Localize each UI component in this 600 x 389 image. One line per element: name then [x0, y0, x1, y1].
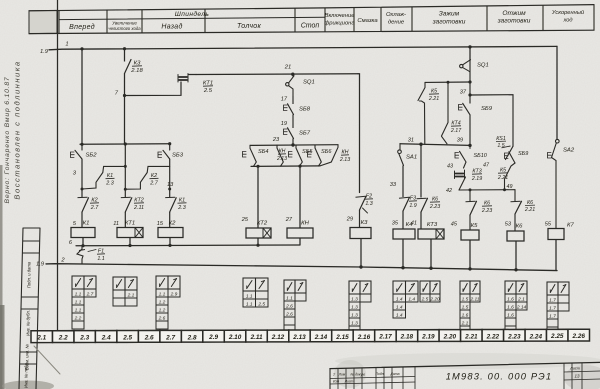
svg-text:дение: дение	[388, 20, 405, 26]
svg-text:13: 13	[167, 182, 174, 188]
pushbutton SB9	[459, 105, 463, 111]
svg-text:2.21: 2.21	[428, 96, 439, 102]
svg-text:заготовки: заготовки	[432, 19, 466, 26]
pushbutton SB3	[158, 152, 162, 158]
svg-text:Смазка: Смазка	[357, 18, 378, 24]
svg-text:2.21: 2.21	[524, 207, 535, 213]
fuse contact F2 1.3	[360, 196, 367, 210]
svg-text:2.14: 2.14	[314, 334, 328, 341]
svg-text:2.7: 2.7	[86, 291, 94, 297]
wire row y145	[250, 144, 338, 147]
contact K5 2.21	[418, 82, 425, 100]
node 37	[468, 93, 471, 96]
contact KN 2.13	[277, 145, 283, 166]
svg-text:2.8: 2.8	[187, 334, 197, 341]
svg-text:23: 23	[272, 137, 280, 143]
usage table KT2	[243, 278, 268, 307]
svg-text:SБ7: SБ7	[299, 131, 311, 137]
svg-text:2.3: 2.3	[105, 180, 114, 186]
wire row y144 left	[80, 143, 170, 146]
drop to KT2 coil	[256, 165, 259, 168]
svg-text:45: 45	[451, 222, 458, 228]
wire top bus line 1	[49, 46, 557, 49]
svg-text:33: 33	[390, 182, 397, 188]
drop to KN coil	[298, 165, 301, 168]
svg-text:Инв. № подл.: Инв. № подл.	[24, 362, 29, 388]
svg-text:53: 53	[505, 222, 512, 228]
center ladder col KT1	[124, 144, 126, 198]
K3 column	[358, 74, 360, 193]
svg-text:SБ2: SБ2	[86, 153, 98, 159]
usage table KT3	[420, 281, 440, 302]
svg-text:2.11: 2.11	[470, 296, 480, 302]
svg-text:Верно: Гончаренко Вмир 6.10.: Верно: Гончаренко Вмир 6.10.87	[4, 76, 11, 203]
fuse contact F3 1.9	[403, 197, 410, 211]
svg-text:фрикциона: фрикциона	[324, 21, 355, 27]
svg-text:2.12: 2.12	[271, 334, 285, 341]
svg-text:Вперед: Вперед	[69, 23, 95, 31]
svg-text:1.9: 1.9	[409, 203, 416, 209]
limit switch SQ1 right	[469, 47, 471, 61]
svg-text:2.24: 2.24	[529, 333, 543, 340]
wire row y166	[251, 165, 320, 168]
svg-text:1.9: 1.9	[36, 262, 45, 268]
svg-text:25: 25	[241, 217, 249, 223]
svg-text:Инв. № дубл.: Инв. № дубл.	[26, 310, 31, 336]
svg-text:Шпиндель: Шпиндель	[175, 10, 210, 18]
svg-text:1.1: 1.1	[97, 256, 104, 262]
wire 37 right drop	[470, 95, 513, 147]
svg-text:42: 42	[446, 188, 452, 194]
svg-text:Увеличение: Увеличение	[112, 21, 137, 26]
svg-text:31: 31	[408, 138, 414, 144]
usage table K6	[505, 281, 527, 334]
svg-text:2.4: 2.4	[101, 335, 111, 342]
header table	[29, 5, 594, 34]
svg-text:ход: ход	[562, 18, 572, 24]
contact KT3 2.19 flag	[456, 174, 464, 177]
crease	[34, 346, 60, 374]
svg-text:1М983. 00. 000 РЭ1: 1М983. 00. 000 РЭ1	[446, 372, 553, 382]
pushbutton SB7	[284, 129, 288, 135]
svg-text:Восстановлен с подлинника: Восстановлен с подлинника	[13, 60, 22, 199]
svg-text:2.7: 2.7	[165, 334, 175, 341]
svg-text:2.3: 2.3	[79, 335, 89, 342]
svg-text:2.7: 2.7	[149, 180, 158, 186]
svg-text:47: 47	[483, 163, 490, 169]
svg-text:Стоп: Стоп	[301, 23, 320, 30]
svg-text:27: 27	[285, 217, 293, 223]
contact K5 2.21 b	[505, 163, 516, 188]
svg-text:1: 1	[65, 42, 68, 48]
pushbutton SB5	[289, 152, 293, 158]
KT3 column	[420, 144, 422, 197]
svg-text:2.6: 2.6	[144, 334, 154, 341]
svg-text:1.5: 1.5	[497, 143, 504, 149]
svg-text:1.4: 1.4	[408, 296, 415, 302]
svg-text:2.16: 2.16	[357, 334, 371, 341]
wire vertical col1	[81, 49, 83, 144]
svg-text:Лим: Лим	[338, 373, 346, 377]
svg-text:КТ1: КТ1	[125, 221, 135, 227]
svg-text:2.5: 2.5	[257, 301, 265, 307]
self hold contact K2 2.7	[125, 166, 169, 189]
svg-text:2.11: 2.11	[133, 205, 144, 211]
contact KT4 2.17	[442, 82, 449, 136]
svg-text:2.9: 2.9	[208, 334, 218, 341]
coil K4	[393, 229, 415, 239]
svg-text:заготовки: заготовки	[497, 18, 531, 25]
svg-text:1.3: 1.3	[365, 201, 372, 207]
svg-text:К2: К2	[169, 221, 176, 227]
svg-text:Подп.: Подп.	[375, 372, 384, 376]
svg-text:11: 11	[113, 221, 119, 227]
svg-text:17: 17	[281, 97, 288, 103]
svg-text:2.26: 2.26	[572, 333, 586, 340]
title block	[330, 362, 600, 389]
svg-text:2.18: 2.18	[400, 334, 414, 341]
drawing frame left border	[57, 0, 59, 331]
svg-text:SБ9: SБ9	[481, 106, 493, 112]
limit switch SQ1	[292, 74, 294, 76]
svg-text:Зажим: Зажим	[439, 11, 460, 18]
svg-text:2.13: 2.13	[276, 156, 287, 162]
contact KS1 1.5	[506, 146, 514, 159]
svg-text:SQ1: SQ1	[303, 80, 315, 86]
svg-text:К1: К1	[83, 221, 90, 227]
bus line 2 bottom	[46, 264, 557, 271]
svg-text:№ докум.: № докум.	[351, 372, 366, 376]
contact KT1 2.5 time flag	[125, 82, 182, 96]
svg-text:Дата: Дата	[390, 372, 400, 376]
svg-text:К7: К7	[567, 223, 574, 229]
NC contact K6 2.21	[514, 190, 516, 201]
svg-text:2.18: 2.18	[130, 68, 143, 74]
usage table K5	[460, 281, 480, 334]
coil KT3 time relay	[418, 229, 444, 239]
svg-text:2.25: 2.25	[550, 333, 564, 340]
coil K1	[71, 228, 95, 238]
switch SA2	[556, 46, 558, 139]
contact KN 2.13 b	[320, 145, 338, 166]
NC contact K6 2.23 b	[469, 190, 471, 201]
svg-text:2.23: 2.23	[481, 208, 492, 214]
svg-text:Ускоренный: Ускоренный	[551, 9, 585, 16]
coil K2	[158, 228, 183, 238]
wire row y74	[196, 73, 358, 76]
svg-text:2.5: 2.5	[421, 296, 429, 302]
usage table K3	[349, 281, 371, 334]
svg-text:Назад: Назад	[161, 23, 182, 31]
svg-text:29: 29	[346, 217, 353, 223]
node 23	[291, 143, 294, 146]
svg-text:19: 19	[281, 121, 287, 127]
svg-text:43: 43	[447, 164, 453, 170]
svg-text:2.7: 2.7	[90, 205, 99, 211]
svg-text:2.20: 2.20	[429, 296, 440, 302]
svg-text:Лист: Лист	[344, 379, 354, 383]
svg-text:Отжим: Отжим	[502, 10, 526, 17]
svg-text:Включение: Включение	[325, 13, 356, 19]
svg-text:2.20: 2.20	[443, 334, 457, 341]
svg-text:41: 41	[411, 221, 417, 227]
svg-text:2.3: 2.3	[177, 205, 186, 211]
svg-text:37: 37	[460, 90, 467, 96]
coil KT1 time relay	[117, 228, 143, 238]
svg-text:Подп. и дата: Подп. и дата	[27, 261, 32, 288]
node 21	[291, 73, 294, 76]
svg-text:2.10: 2.10	[228, 334, 242, 341]
svg-text:2.21: 2.21	[464, 333, 478, 340]
svg-text:Изм: Изм	[333, 380, 340, 384]
svg-text:2.13: 2.13	[292, 334, 306, 341]
self hold contact K1 2.3	[82, 166, 125, 189]
usage table K1	[72, 276, 96, 329]
left stamp column	[19, 228, 40, 389]
svg-text:SA1: SA1	[406, 155, 417, 161]
coil K6	[507, 231, 524, 241]
svg-text:55: 55	[545, 222, 552, 228]
svg-text:КН: КН	[301, 221, 309, 227]
svg-text:SБ8: SБ8	[299, 107, 311, 113]
svg-text:Толчок: Толчок	[237, 23, 262, 30]
fuse F1 1.1	[77, 246, 83, 264]
NC contact K2 2.7	[82, 198, 89, 212]
coil K7	[548, 229, 564, 240]
svg-text:К5: К5	[471, 223, 478, 229]
svg-text:2.14: 2.14	[516, 304, 527, 310]
row 31 wire	[400, 144, 470, 146]
switch SA1	[399, 144, 401, 150]
pushbutton SB10	[455, 153, 459, 159]
svg-text:2.19: 2.19	[471, 176, 482, 182]
NC contact KT2 2.11	[125, 198, 132, 212]
svg-text:2.17: 2.17	[378, 334, 392, 341]
svg-text:Охлаж-: Охлаж-	[386, 12, 406, 18]
svg-text:SQ1: SQ1	[477, 63, 489, 69]
pushbutton SB6	[308, 152, 312, 158]
coil K3	[350, 228, 371, 239]
svg-text:2.9: 2.9	[170, 291, 178, 297]
pushbutton SB8	[284, 105, 288, 111]
svg-text:КТ3: КТ3	[427, 222, 438, 228]
svg-text:2.23: 2.23	[507, 333, 521, 340]
NC contact K6 2.23	[421, 198, 428, 212]
svg-text:SБ6: SБ6	[321, 149, 332, 155]
svg-text:К3: К3	[361, 220, 368, 226]
NC contact K1 2.3	[170, 198, 177, 212]
pushbutton SB2	[71, 152, 75, 158]
pushbutton SB4	[243, 152, 247, 158]
svg-text:SБ4: SБ4	[258, 149, 268, 155]
svg-text:49: 49	[507, 184, 513, 190]
svg-text:2.15: 2.15	[335, 334, 349, 341]
svg-text:35: 35	[392, 221, 399, 227]
svg-text:2.11: 2.11	[250, 334, 263, 341]
svg-text:13: 13	[574, 374, 580, 379]
coil K5	[461, 230, 479, 240]
svg-text:2.2: 2.2	[58, 335, 68, 342]
svg-text:21: 21	[284, 65, 291, 71]
wire 42-49	[459, 189, 515, 191]
svg-text:SБ9: SБ9	[518, 151, 528, 157]
usage table K7	[547, 282, 569, 335]
svg-text:2.22: 2.22	[486, 333, 500, 340]
svg-text:1.1: 1.1	[246, 301, 253, 307]
usage table KT1	[113, 277, 137, 306]
svg-text:2.21: 2.21	[497, 175, 508, 181]
sheet zone number strip	[31, 329, 590, 342]
usage table KN	[284, 280, 306, 333]
svg-text:39: 39	[457, 138, 463, 144]
svg-text:2.17: 2.17	[450, 128, 462, 134]
svg-text:КТ2: КТ2	[257, 221, 268, 227]
svg-text:1.9: 1.9	[40, 49, 49, 55]
usage table K2	[156, 276, 180, 329]
svg-text:челистого хода: челистого хода	[108, 26, 141, 31]
svg-text:2.5: 2.5	[122, 334, 132, 341]
svg-text:15: 15	[157, 221, 164, 227]
svg-text:2.5: 2.5	[203, 88, 213, 94]
svg-text:SA2: SA2	[563, 148, 575, 154]
svg-text:2.13: 2.13	[339, 157, 350, 163]
usage table K4	[393, 281, 418, 318]
svg-text:Лист: Лист	[569, 367, 580, 371]
svg-text:2.23: 2.23	[429, 204, 440, 210]
svg-text:1.4: 1.4	[396, 312, 403, 318]
svg-text:SБ3: SБ3	[172, 153, 184, 159]
svg-text:SБ10: SБ10	[474, 153, 488, 159]
svg-text:2.19: 2.19	[421, 334, 435, 341]
contact K3 2.18	[124, 49, 126, 62]
svg-text:К6: К6	[516, 224, 523, 230]
pushbutton SB9 b	[505, 153, 509, 159]
wire y82 right block	[425, 81, 470, 83]
